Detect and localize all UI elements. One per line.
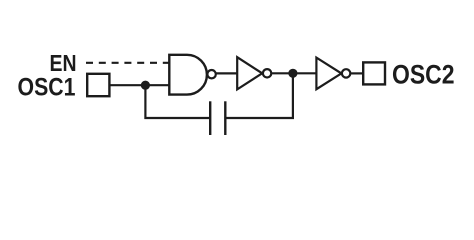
pin OSC1 bbox=[87, 74, 109, 96]
node junction A bbox=[141, 81, 150, 90]
wire NAND to inverter U2 bbox=[216, 72, 237, 74]
svg-text:OSC1: OSC1 bbox=[18, 74, 76, 102]
wire U2 to U3 bbox=[271, 72, 316, 74]
pin OSC2 bbox=[363, 62, 385, 84]
nand output bubble bbox=[207, 70, 215, 78]
node junction B bbox=[288, 69, 297, 78]
inverter U3 bubble bbox=[342, 69, 350, 77]
inverter U2 bbox=[237, 57, 262, 89]
capacitor C1 bbox=[209, 101, 211, 135]
nand gate U1 bbox=[169, 55, 207, 95]
wire feedback down-left bbox=[145, 85, 210, 118]
svg-text:OSC2: OSC2 bbox=[392, 60, 455, 90]
inverter U3 bbox=[316, 58, 341, 90]
svg-text:EN: EN bbox=[50, 50, 77, 76]
wire U3 to OSC2 pin bbox=[350, 72, 363, 74]
wire EN dashed bbox=[86, 62, 170, 64]
wire feedback right-up bbox=[225, 73, 293, 118]
wire OSC1 to NAND input bbox=[111, 84, 171, 86]
inverter U2 bubble bbox=[263, 69, 271, 77]
